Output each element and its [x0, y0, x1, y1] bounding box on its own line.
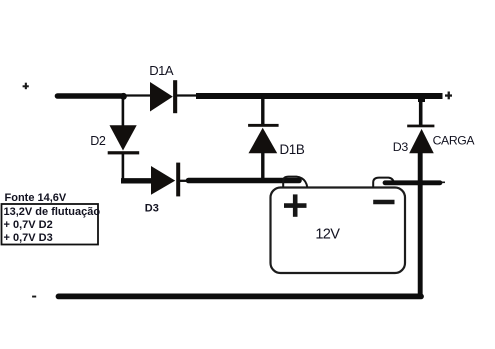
node + (source positive terminal label, left) [23, 83, 29, 90]
diode D3 (series diode, lower-left branch) [151, 163, 180, 197]
node junction of D2 branch on top bus [120, 93, 127, 100]
svg-text:13,2V de flutuação: 13,2V de flutuação [4, 206, 101, 218]
wire thin from junction to D1A anode [123, 94, 151, 96]
annotation box [2, 204, 99, 245]
node + (output positive label, right) [445, 92, 452, 100]
wire thin from D1A cathode to top bus [177, 94, 197, 96]
svg-text:Fonte 14,6V: Fonte 14,6V [5, 192, 67, 204]
wire load branch vertical through lower bus down to bottom bus [418, 152, 423, 296]
wire from D1B anode down to lower bus [261, 152, 264, 180]
wire D2 branch vertical from top bus [122, 96, 125, 127]
svg-text:D1A: D1A [149, 63, 174, 78]
wire top bus thick left segment [58, 93, 124, 99]
node junction of load branch on top bus [418, 96, 425, 102]
diode D1A (series diode, top branch) [150, 80, 177, 113]
node - (source negative terminal label, left) [32, 296, 36, 298]
diode D2 (down-pointing) [108, 125, 140, 154]
diode D1B (up-pointing shunt diode) [248, 124, 279, 153]
battery - mark [373, 200, 394, 205]
wire from D2 cathode down to lower bus corner [122, 154, 125, 180]
wire load branch vertical from top bus to load diode [419, 96, 423, 125]
battery + mark [284, 194, 307, 216]
wire D1B branch vertical from top bus [261, 96, 264, 125]
wire bottom bus (negative rail) [59, 293, 422, 299]
wire lower bus thick corner segment to D3 anode [121, 178, 152, 183]
wire lower bus thick right segment from battery - terminal [385, 180, 440, 185]
node - (output negative label, right) [442, 182, 445, 184]
svg-text:D1B: D1B [280, 142, 305, 157]
wire top bus thick right segment [196, 93, 443, 99]
wire lower bus thick middle segment to battery + terminal [189, 178, 300, 184]
svg-text:+ 0,7V D3: + 0,7V D3 [4, 232, 53, 244]
svg-text:CARGA: CARGA [433, 133, 476, 147]
svg-text:D2: D2 [90, 134, 106, 148]
svg-text:D3: D3 [145, 203, 159, 215]
svg-text:12V: 12V [315, 226, 340, 242]
diode D3 (up-pointing, load branch) [407, 125, 434, 154]
battery right terminal clamp [373, 178, 394, 188]
svg-text:D3: D3 [393, 140, 409, 154]
battery 12V outline [271, 188, 406, 274]
wire thin from D3 cathode [180, 180, 190, 182]
svg-text:+ 0,7V D2: + 0,7V D2 [4, 219, 53, 231]
battery left terminal clamp [283, 177, 307, 188]
